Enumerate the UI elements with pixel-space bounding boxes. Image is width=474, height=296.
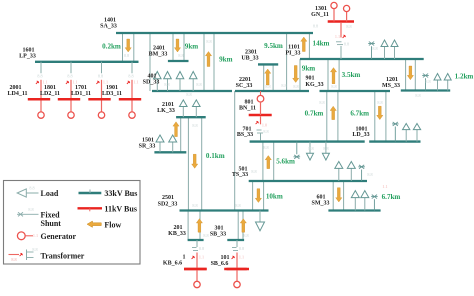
svg-text:8.8: 8.8 — [344, 42, 349, 47]
label bus BS_33 — [237, 126, 253, 138]
fixed shunt on PI_33 — [368, 42, 375, 59]
svg-text:LD2_11: LD2_11 — [40, 91, 60, 97]
svg-text:1.1: 1.1 — [33, 233, 38, 238]
wire SD2-SB ckt2 — [242, 211, 244, 241]
svg-text:0.7km: 0.7km — [305, 109, 324, 117]
bus UB_33 — [258, 63, 278, 65]
bus BN_11 — [249, 114, 272, 117]
bus LK_33 — [176, 116, 206, 118]
svg-text:1.2km: 1.2km — [455, 72, 474, 80]
label bus LD_33 — [352, 126, 369, 138]
load on MS_33 #2 — [444, 74, 451, 91]
svg-text:8.8: 8.8 — [196, 82, 201, 87]
legend 33kV bus symbol — [79, 190, 102, 194]
legend transformer symbol — [9, 247, 38, 262]
flow arrow UB-SC — [265, 69, 271, 85]
wire TS-SM ckt1 — [332, 181, 334, 211]
load on LK_33 #2 — [193, 100, 201, 117]
flow arrow SA-BM — [174, 39, 180, 52]
label bus LD1_11 — [71, 85, 91, 97]
svg-text:1.1: 1.1 — [382, 184, 387, 189]
svg-text:LD3_11: LD3_11 — [102, 91, 122, 97]
svg-text:8.8: 8.8 — [263, 129, 268, 134]
svg-text:8.8: 8.8 — [192, 123, 197, 128]
label bus SB_33 — [210, 225, 226, 237]
svg-text:TS_33: TS_33 — [232, 172, 248, 178]
flow arrow KG-LD — [377, 106, 383, 119]
bus SB_6.6 — [227, 268, 250, 271]
label bus LK_33 — [157, 102, 175, 114]
bus BM_33 — [168, 60, 189, 62]
bus SD_33 — [152, 90, 232, 92]
bus KB_33 — [188, 239, 204, 241]
label bus LD2_11 — [40, 85, 60, 97]
svg-text:MS_33: MS_33 — [382, 83, 400, 89]
svg-text:LK_33: LK_33 — [157, 108, 175, 114]
svg-text:0.1km: 0.1km — [206, 152, 225, 160]
svg-text:1.1: 1.1 — [335, 34, 340, 39]
bus SD2_33 — [180, 209, 269, 211]
wire BS-TS ckt1 — [262, 142, 264, 181]
bus SM_33 — [328, 209, 380, 211]
svg-text:8.8: 8.8 — [323, 146, 328, 151]
svg-text:8.8: 8.8 — [265, 84, 270, 89]
svg-text:14km: 14km — [313, 39, 330, 47]
svg-text:8.8: 8.8 — [128, 73, 133, 78]
wire SA-BM ckt2 — [183, 33, 185, 61]
flow arrow TS-SM — [336, 188, 342, 202]
label bus UB_33 — [241, 50, 258, 62]
wire LK-SD2 ckt2 — [201, 117, 203, 210]
svg-text:8.8: 8.8 — [243, 233, 248, 238]
svg-text:LP_33: LP_33 — [19, 54, 36, 60]
wire UB-SC ckt1 — [263, 64, 265, 91]
svg-text:10km: 10km — [266, 192, 283, 200]
transformer+generator LD2_11 — [58, 62, 80, 119]
svg-text:SR_33: SR_33 — [139, 144, 156, 150]
svg-text:5.6km: 5.6km — [276, 158, 295, 166]
svg-text:8.8: 8.8 — [29, 186, 34, 191]
wire KG-BS ckt1 — [326, 91, 328, 142]
wire SA-LP ckt1 — [122, 33, 124, 62]
label bus KB_33 — [168, 225, 186, 237]
svg-text:8.8: 8.8 — [319, 100, 324, 105]
fixed shunt on BS_33 — [294, 142, 301, 159]
svg-text:8.8: 8.8 — [346, 24, 351, 29]
generator GN1 — [331, 2, 337, 8]
svg-text:Load: Load — [41, 189, 59, 198]
generator BN gen — [257, 95, 264, 102]
load on BS_33 #1 — [307, 142, 314, 160]
svg-text:1.1: 1.1 — [103, 79, 108, 84]
svg-text:8.8: 8.8 — [308, 146, 313, 151]
wire UB-SC ckt2 — [272, 64, 274, 91]
bus SB_33 — [227, 239, 244, 241]
svg-text:Shunt: Shunt — [41, 219, 62, 228]
transformer+generator KB_6.6 — [184, 240, 207, 288]
bus TS_33 — [249, 180, 367, 182]
svg-text:1.1: 1.1 — [72, 79, 77, 84]
svg-text:9.5km: 9.5km — [264, 42, 283, 50]
legend load symbol — [17, 186, 38, 198]
load on SD_33 #3 — [176, 72, 184, 92]
svg-text:9km: 9km — [219, 55, 232, 63]
svg-text:8.8: 8.8 — [377, 100, 382, 105]
wire PI-KG ckt1 — [327, 59, 329, 91]
legend 11kV bus symbol — [78, 208, 103, 211]
wire generator BN to bus BN_11 — [260, 102, 262, 115]
wire SA-SD b2 — [213, 33, 215, 91]
bus SC_33 — [235, 90, 309, 92]
svg-text:GN_11: GN_11 — [311, 12, 329, 18]
flow arrow TS-SD2 — [255, 189, 261, 203]
load on MS_33 #1 — [434, 74, 441, 91]
svg-text:LD_33: LD_33 — [352, 132, 369, 138]
label bus SC_33 — [236, 77, 253, 89]
flow arrow SD2-KB — [196, 219, 202, 233]
svg-text:SB_33: SB_33 — [210, 231, 226, 237]
load on SR_33 #1 — [156, 135, 164, 152]
flow arrow SA-SD — [205, 52, 211, 67]
svg-text:SD_33: SD_33 — [143, 80, 160, 86]
label bus KG_33 — [305, 76, 323, 89]
load on PI_33 #2 — [391, 40, 398, 59]
svg-text:2501: 2501 — [162, 195, 174, 201]
bus SR_33 — [154, 151, 186, 153]
transformer+generator LD1_11 — [88, 62, 110, 119]
svg-text:6.7km: 6.7km — [350, 109, 369, 117]
label bus SD_33 — [143, 74, 160, 86]
bus GN_11 — [328, 20, 354, 23]
svg-text:8.8: 8.8 — [263, 145, 268, 150]
svg-text:8.8: 8.8 — [11, 257, 16, 262]
flow arrow KG-BS — [330, 106, 336, 119]
svg-text:8.8: 8.8 — [98, 73, 103, 78]
load on SD2_33 #1 — [256, 211, 265, 231]
svg-text:KB_6.6: KB_6.6 — [163, 261, 182, 267]
wire generator GN1 stem — [333, 9, 335, 22]
svg-text:1.1: 1.1 — [239, 255, 244, 260]
label bus LP_33 — [19, 48, 36, 60]
svg-text:8.8: 8.8 — [239, 246, 244, 251]
label bus SM_33 — [312, 195, 330, 207]
wire PI-KG ckt2 — [338, 59, 340, 91]
svg-text:1.1: 1.1 — [42, 79, 47, 84]
svg-text:LD4_11: LD4_11 — [7, 91, 27, 97]
wire SA-BM ckt1 — [172, 33, 174, 61]
wire BS-TS ckt2 — [273, 142, 275, 181]
fixed shunt on LD_33 — [392, 122, 399, 142]
wire KG-BS ckt2 — [337, 91, 339, 142]
generator GN2 — [344, 5, 350, 11]
fixed shunt on MS_33 — [422, 74, 429, 91]
label bus BM_33 — [149, 46, 168, 58]
svg-text:SD2_33: SD2_33 — [158, 202, 178, 208]
load on LD_33 #1 — [403, 124, 410, 142]
svg-text:BN_11: BN_11 — [239, 106, 256, 112]
svg-text:SA_33: SA_33 — [100, 24, 117, 30]
legend flow symbol — [87, 221, 101, 227]
svg-text:KG_33: KG_33 — [305, 82, 323, 88]
svg-text:9km: 9km — [302, 64, 315, 72]
svg-text:8.8: 8.8 — [251, 169, 256, 174]
wire TS-SD2 ckt1 — [252, 181, 254, 211]
wire SA-SD a — [149, 33, 151, 91]
svg-text:8.8: 8.8 — [192, 203, 197, 208]
wire SD2-KB ckt2 — [199, 211, 201, 241]
svg-text:8.8: 8.8 — [199, 246, 204, 251]
svg-text:901: 901 — [306, 76, 315, 82]
wire PI-MS ckt1 — [405, 59, 407, 91]
svg-text:8.8: 8.8 — [178, 53, 183, 58]
bus KG_33 — [320, 90, 391, 92]
load on BS_33 #2 — [322, 142, 329, 160]
label bus KB_6.6 — [163, 255, 186, 267]
label bus SR_33 — [139, 138, 156, 150]
bus BS_33 — [250, 140, 365, 142]
wire KG-LD ckt1 — [374, 91, 376, 142]
svg-text:8.8: 8.8 — [415, 93, 420, 98]
svg-text:1.0: 1.0 — [262, 123, 267, 128]
svg-text:8.8: 8.8 — [203, 233, 208, 238]
label bus SA_33 — [100, 18, 117, 30]
wire TS-SD2 ckt2 — [263, 181, 265, 211]
transformer GN_11-PI_33 — [313, 23, 352, 59]
load on SM_33 #2 — [361, 191, 369, 211]
svg-text:8.8: 8.8 — [372, 46, 377, 51]
wire SD2-SB ckt1 — [237, 211, 239, 241]
wire SA-PI — [308, 33, 310, 59]
faint flow value marks — [124, 39, 431, 238]
svg-text:8.8: 8.8 — [367, 172, 372, 177]
legend generator symbol — [17, 232, 38, 240]
load on TS_33 #2 — [347, 162, 355, 182]
bus SA_33 — [116, 32, 313, 34]
svg-text:8.8: 8.8 — [293, 84, 298, 89]
load on SD_33 #2 — [164, 72, 172, 92]
svg-text:8.8: 8.8 — [67, 73, 72, 78]
svg-text:UB_33: UB_33 — [241, 56, 258, 62]
label bus MS_33 — [382, 77, 400, 89]
wire PI-SC — [299, 59, 301, 91]
svg-text:SM_33: SM_33 — [312, 201, 330, 207]
svg-text:LD1_11: LD1_11 — [71, 91, 91, 97]
svg-text:SB_6.6: SB_6.6 — [211, 261, 229, 267]
transformer+generator LD3_11 — [119, 62, 141, 119]
load on LK_33 #1 — [180, 100, 188, 117]
svg-text:8.8: 8.8 — [37, 73, 42, 78]
label bus TS_33 — [232, 166, 248, 178]
wire PI-MS ckt2 — [414, 59, 416, 91]
svg-text:Generator: Generator — [41, 232, 77, 241]
wire TS-SM ckt2 — [343, 181, 345, 211]
svg-text:8.8: 8.8 — [331, 84, 336, 89]
svg-text:0.2km: 0.2km — [102, 42, 121, 50]
label bus PI_33 — [286, 45, 301, 57]
svg-text:BM_33: BM_33 — [149, 52, 168, 58]
bus LP_33 — [35, 61, 139, 63]
wire SC_33 to generator BN — [260, 91, 262, 95]
wire LK-SD2 ckt1 — [187, 117, 189, 210]
flow arrow BS-TS — [265, 156, 271, 169]
bus LD_33 — [369, 140, 420, 142]
svg-text:8.8: 8.8 — [313, 24, 318, 29]
flow arrow SD2-SB — [240, 219, 246, 233]
svg-text:KB_33: KB_33 — [168, 231, 186, 237]
svg-text:3.5km: 3.5km — [342, 71, 361, 79]
wire LK-SR — [180, 117, 182, 152]
transformer+generator SB_6.6 — [224, 240, 247, 288]
fixed shunt on SM_33 — [371, 195, 378, 211]
wire SD2-KB ckt1 — [187, 211, 189, 241]
load on SD_33 #1 — [154, 72, 162, 92]
wire SD-SD2 — [234, 91, 236, 211]
load on LD_33 #2 — [413, 124, 420, 142]
wire KG-LD ckt2 — [385, 91, 387, 142]
svg-text:8.8: 8.8 — [28, 207, 33, 212]
svg-text:BS_33: BS_33 — [237, 132, 253, 138]
transformer BN_11-BS_33 — [256, 116, 269, 140]
svg-text:6.7km: 6.7km — [382, 193, 401, 201]
label bus GN_11 — [311, 6, 329, 18]
load on SM_33 #1 — [351, 191, 359, 211]
wire generator GN2 stem — [346, 12, 348, 22]
label bus LD4_11 — [7, 85, 27, 97]
legend fixed shunt symbol — [17, 212, 39, 216]
svg-text:Flow: Flow — [104, 220, 121, 229]
legend label Fixed Shunt — [41, 211, 62, 228]
flow arrow SA-PI — [301, 37, 307, 52]
wire SA-SD b1 — [203, 33, 205, 91]
svg-text:8.8: 8.8 — [281, 83, 286, 88]
svg-text:33kV Bus: 33kV Bus — [104, 189, 137, 198]
transformer+generator LD4_11 — [28, 62, 50, 119]
svg-text:2101: 2101 — [162, 102, 174, 108]
svg-text:11kV Bus: 11kV Bus — [104, 205, 137, 214]
flow arrow PI-SC — [293, 66, 299, 83]
svg-text:8.8: 8.8 — [425, 79, 430, 84]
bus KB_6.6 — [184, 268, 207, 271]
label bus LD3_11 — [102, 85, 122, 97]
svg-text:8.8: 8.8 — [235, 203, 240, 208]
svg-text:PI_33: PI_33 — [286, 51, 301, 57]
svg-text:8.8: 8.8 — [186, 92, 191, 97]
bus MS_33 — [401, 89, 450, 91]
wire SA-SC — [286, 33, 288, 91]
load on SR_33 #2 — [169, 135, 177, 152]
svg-text:1.1: 1.1 — [199, 255, 204, 260]
svg-text:8.8: 8.8 — [32, 247, 37, 252]
label bus SD2_33 — [158, 195, 178, 208]
wire SA-LP ckt2 — [133, 33, 135, 62]
svg-text:8.8: 8.8 — [206, 39, 211, 44]
svg-text:8.8: 8.8 — [164, 82, 169, 87]
legend box frame — [4, 181, 141, 265]
bus PI_33 — [300, 58, 424, 60]
flow arrow PI-KG — [330, 68, 336, 84]
svg-text:9km: 9km — [185, 42, 198, 50]
svg-text:SC_33: SC_33 — [236, 83, 253, 89]
flow arrow SA-LP — [125, 39, 131, 52]
label bus SB_6.6 — [211, 255, 230, 267]
svg-text:1.1: 1.1 — [133, 79, 138, 84]
svg-text:Transformer: Transformer — [41, 251, 85, 260]
flow arrow LK-SD2 — [192, 154, 198, 168]
fixed shunt on TS_33 — [358, 165, 365, 181]
load on SD_33 #4 — [189, 72, 197, 92]
load on TS_33 #1 — [335, 162, 343, 182]
flow arrow LK-SR — [173, 122, 179, 137]
flow arrow PI-MS — [407, 66, 413, 80]
svg-text:1: 1 — [183, 255, 186, 261]
load on PI_33 #1 — [381, 40, 388, 59]
label bus BN_11 — [239, 100, 256, 112]
svg-text:8.8: 8.8 — [124, 53, 129, 58]
